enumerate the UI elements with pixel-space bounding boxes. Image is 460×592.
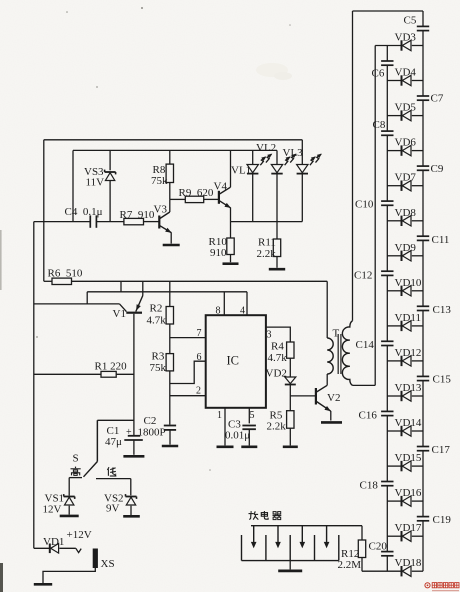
label pin 8 <box>216 306 221 317</box>
wire ladder right rail <box>422 11 424 571</box>
wire pin 2 <box>170 395 206 397</box>
capacitor C15 <box>417 376 429 380</box>
capacitor C2 <box>164 426 176 445</box>
label R8 <box>153 164 166 176</box>
diode VD7 <box>402 181 412 191</box>
svg-text:VD14: VD14 <box>395 417 422 429</box>
label C16 <box>359 410 378 422</box>
label V1 <box>113 308 126 320</box>
transistor V3 <box>159 199 171 243</box>
label VD18 <box>395 557 422 569</box>
wire secondary bottom <box>353 384 376 386</box>
label C19 <box>433 514 452 526</box>
svg-text:VD12: VD12 <box>395 347 422 359</box>
discharger arrow 2 <box>276 526 280 548</box>
wire VD5 row <box>387 115 423 117</box>
wire R4-VD2 <box>289 358 291 377</box>
svg-text:12V: 12V <box>43 504 62 516</box>
svg-text:C8: C8 <box>373 119 386 131</box>
label R2 <box>150 303 163 315</box>
ground pin 1 <box>217 445 234 448</box>
label VD9 <box>395 242 417 254</box>
label R1 220 <box>95 361 128 373</box>
label C1 plus <box>126 427 132 438</box>
ground discharger <box>278 570 302 573</box>
wire R1 row <box>34 373 134 375</box>
watermark <box>425 583 459 591</box>
svg-text:9V: 9V <box>106 503 120 515</box>
wire second left rail <box>43 140 45 281</box>
svg-text:C20: C20 <box>369 541 388 553</box>
label VD5 <box>395 102 417 114</box>
diode VD4 <box>402 75 412 85</box>
scan smudge <box>0 230 3 592</box>
diode VD2 <box>285 377 296 385</box>
label VD3 <box>395 32 417 44</box>
label VD14 <box>395 417 422 429</box>
resistor R4 <box>287 342 294 358</box>
svg-text:R3: R3 <box>152 351 165 363</box>
wire R10 <box>230 222 232 263</box>
svg-text:0.01μ: 0.01μ <box>225 430 250 442</box>
label VL2 <box>256 142 276 154</box>
label R3 75k <box>150 362 167 374</box>
wire +V rail from R6 to transformer primary <box>44 280 327 282</box>
capacitor C8 <box>381 131 393 135</box>
svg-text:VD8: VD8 <box>395 207 417 219</box>
wire top LED rail <box>44 139 303 141</box>
wire VD8 row <box>387 220 423 222</box>
wire R3 bottom chain <box>169 371 171 425</box>
wire contact high <box>69 478 82 496</box>
wire rail stub <box>120 281 122 292</box>
label R9 620 <box>179 187 214 199</box>
svg-text:R9 620: R9 620 <box>179 187 214 199</box>
LED VL3 <box>297 140 322 222</box>
capacitor C5 <box>417 26 429 30</box>
svg-text:VL2: VL2 <box>256 142 276 154</box>
label VD11 <box>395 312 421 324</box>
label VS1 <box>45 493 65 505</box>
wire VD14 row <box>387 430 423 432</box>
svg-text:47μ: 47μ <box>105 436 122 448</box>
wire primary top <box>326 281 328 338</box>
label R6 510 <box>48 268 83 280</box>
svg-text:2: 2 <box>196 386 201 397</box>
svg-text:C6: C6 <box>372 68 385 80</box>
wire VD2-R5 node <box>289 384 291 410</box>
wire VD1 row <box>34 547 76 549</box>
wire pin 3 <box>266 327 290 342</box>
label VD4 <box>395 67 417 79</box>
label C3 <box>228 419 241 431</box>
diode VD14 <box>402 426 412 436</box>
wire V1 base <box>34 304 127 312</box>
discharger comb electrodes <box>242 535 339 561</box>
svg-text:75k: 75k <box>151 175 168 187</box>
wire VD16 row <box>387 500 423 502</box>
label pin 1 <box>217 410 222 421</box>
label di (low contact) <box>107 467 116 476</box>
label 75k <box>151 175 168 187</box>
wire pin 7 <box>170 337 206 339</box>
transformer T secondary <box>342 321 352 386</box>
svg-text:VD3: VD3 <box>395 32 417 44</box>
label VL3 <box>283 147 304 159</box>
svg-text:V3: V3 <box>154 204 168 216</box>
wire pin 5 <box>248 408 250 424</box>
svg-text:C16: C16 <box>359 410 378 422</box>
svg-text:S: S <box>73 453 79 465</box>
svg-text:C7: C7 <box>431 93 444 105</box>
transformer core <box>338 334 341 374</box>
transistor V4 <box>219 150 231 221</box>
label VD6 <box>395 137 417 149</box>
capacitor C9 <box>417 166 429 170</box>
label C10 <box>355 199 374 211</box>
svg-text:VL1: VL1 <box>231 165 251 177</box>
wire switch drop <box>96 420 98 461</box>
label pin 3 <box>267 330 272 341</box>
resistor R9 <box>185 196 203 202</box>
wire V2 base <box>290 395 315 397</box>
svg-text:XS: XS <box>101 558 115 570</box>
IC box U1 <box>206 315 266 408</box>
svg-text:C19: C19 <box>433 514 452 526</box>
capacitor C7 <box>417 96 429 100</box>
svg-text:V1: V1 <box>113 308 126 320</box>
wire pin 4 stub <box>246 292 248 315</box>
svg-text:1800P: 1800P <box>138 427 166 439</box>
capacitor C1 <box>124 436 143 455</box>
wire R9 row <box>170 198 219 200</box>
wire ladder top <box>353 10 424 12</box>
svg-text:8: 8 <box>216 306 221 317</box>
svg-text:VD18: VD18 <box>395 557 422 569</box>
diode VD15 <box>402 461 412 471</box>
capacitor C20 <box>381 552 393 556</box>
transformer T primary <box>327 338 333 374</box>
label pin 2 <box>196 386 201 397</box>
svg-text:6: 6 <box>197 352 202 363</box>
label R11 <box>258 237 276 249</box>
svg-text:7: 7 <box>197 328 202 339</box>
label C2 <box>144 415 157 427</box>
svg-text:2.2k: 2.2k <box>257 248 277 260</box>
label VD15 <box>395 452 422 464</box>
label V4 <box>214 181 228 193</box>
wire R11 bottom <box>276 257 278 268</box>
ground V3 emitter <box>163 244 180 247</box>
ground VS1 <box>60 515 79 518</box>
resistor R5 <box>287 411 294 429</box>
capacitor C10 <box>381 201 393 205</box>
svg-text:C9: C9 <box>431 163 444 175</box>
svg-text:75k: 75k <box>150 362 167 374</box>
capacitor C11 <box>417 236 429 240</box>
svg-text:2.2M: 2.2M <box>338 559 362 571</box>
diode VD12 <box>402 356 412 366</box>
wire LED cathode row <box>231 221 303 223</box>
wire VD13 row <box>387 395 423 397</box>
resistor R6 <box>52 278 72 284</box>
label R4 <box>271 341 284 353</box>
svg-text:+12V: +12V <box>67 529 92 541</box>
svg-text:C13: C13 <box>433 304 452 316</box>
resistor R12 <box>358 540 365 558</box>
svg-text:2.2k: 2.2k <box>267 421 287 433</box>
LED VL1 <box>247 150 272 221</box>
svg-text:4.7k: 4.7k <box>147 315 167 327</box>
switch S blade <box>84 462 98 477</box>
capacitor C12 <box>381 271 393 275</box>
discharger arrow 1 <box>252 526 256 548</box>
wire VD7 row <box>387 185 423 187</box>
label pin 7 <box>197 328 202 339</box>
label C13 <box>433 304 452 316</box>
svg-text:3: 3 <box>267 330 272 341</box>
discharger arrow 4 <box>324 526 328 548</box>
wire R12 top <box>361 526 363 540</box>
resistor R10 <box>227 238 234 255</box>
diode VD6 <box>402 145 412 155</box>
svg-text:IC: IC <box>227 354 240 368</box>
wire 8-4 supply rail <box>87 292 247 304</box>
ground C3 <box>241 445 257 448</box>
wire R2 chain top <box>169 281 171 306</box>
ground C2 <box>162 445 178 448</box>
wire primary bottom <box>326 374 328 385</box>
wire VD3 row <box>375 45 423 47</box>
label VD2 <box>266 368 287 380</box>
label 910 <box>210 247 227 259</box>
capacitor C18 <box>381 482 393 486</box>
resistor R8 <box>166 164 173 182</box>
svg-text:VL3: VL3 <box>283 147 304 159</box>
wire ladder bottom row extension <box>361 558 363 572</box>
label C2 1800P <box>138 427 166 439</box>
svg-text:V4: V4 <box>214 181 228 193</box>
label C4 0.1u <box>65 206 103 218</box>
wire outer left rail <box>33 222 35 549</box>
label C17 <box>432 444 451 456</box>
resistor R1 <box>101 371 116 377</box>
label VD1 <box>43 536 64 548</box>
wire VS3 branch <box>109 150 111 221</box>
svg-text:VD15: VD15 <box>395 452 422 464</box>
svg-text:VD17: VD17 <box>395 522 422 534</box>
label 2.2k <box>257 248 277 260</box>
label VD16 <box>395 487 422 499</box>
zener VS1 <box>64 494 75 505</box>
svg-text:R4: R4 <box>271 341 284 353</box>
wire VD4 row <box>387 80 423 82</box>
label VS3 <box>84 166 104 178</box>
capacitor C14 <box>381 341 393 345</box>
svg-text:+: + <box>126 427 132 438</box>
svg-text:1: 1 <box>217 410 222 421</box>
wire box top rail <box>73 149 277 151</box>
diode VD16 <box>402 496 412 506</box>
svg-text:5: 5 <box>250 410 255 421</box>
resistor R7 <box>124 218 144 224</box>
label C9 <box>431 163 444 175</box>
label VS2 <box>104 493 124 505</box>
wire VD11 row <box>387 325 423 327</box>
label T <box>333 328 340 340</box>
diode VD5 <box>402 110 412 120</box>
svg-text:C2: C2 <box>144 415 157 427</box>
label pin 5 <box>250 410 255 421</box>
ground VS2 <box>123 515 140 518</box>
scan specks <box>36 7 292 471</box>
label R7 910 <box>120 209 155 221</box>
wire discharger center tap <box>289 561 291 570</box>
wire return rail <box>374 46 376 386</box>
capacitor C19 <box>417 517 429 521</box>
wire pin 6 <box>170 361 206 383</box>
diode VD1 <box>50 544 59 554</box>
wire box left side <box>72 150 74 221</box>
wire VD6 row <box>387 150 423 152</box>
svg-text:VD16: VD16 <box>395 487 422 499</box>
svg-text:VD13: VD13 <box>395 382 422 394</box>
label fang-dian-qi (discharger) <box>249 511 282 520</box>
label VD8 <box>395 207 417 219</box>
svg-text:V2: V2 <box>327 392 340 404</box>
wire C4 row <box>34 221 159 223</box>
label R5 <box>270 410 283 422</box>
label VD12 <box>395 347 422 359</box>
wire discharger top line <box>251 525 362 527</box>
label VD10 <box>395 277 422 289</box>
label C12 <box>354 270 372 282</box>
wire C1 branch <box>97 420 133 461</box>
label gao (high contact) <box>71 467 81 476</box>
zener VS2 <box>126 494 137 505</box>
label VS2 9V <box>106 503 120 515</box>
label C15 <box>433 374 452 386</box>
ground battery <box>34 583 52 586</box>
svg-text:R2: R2 <box>150 303 163 315</box>
wire VD15 row <box>387 465 423 467</box>
wire R8 branch <box>169 150 171 199</box>
label R12 2.2M <box>338 559 362 571</box>
diode VD17 <box>402 531 412 541</box>
label C11 <box>432 234 450 246</box>
wire R5 bottom <box>289 428 291 445</box>
svg-text:C5: C5 <box>404 15 417 27</box>
label R4 4.7k <box>268 352 288 364</box>
wire jack to ground <box>43 568 95 583</box>
diode VD9 <box>402 251 412 261</box>
label XS <box>101 558 115 570</box>
label R12 <box>341 548 359 560</box>
svg-text:VD4: VD4 <box>395 67 417 79</box>
wire VS2 bottom <box>130 506 132 515</box>
diode VD13 <box>402 391 412 401</box>
label 47u <box>105 436 122 448</box>
label R10 <box>209 236 228 248</box>
label C14 <box>356 339 375 351</box>
resistor R11 <box>273 239 280 257</box>
label R3 <box>152 351 165 363</box>
wire VD12 row <box>387 360 423 362</box>
transistor V1 <box>126 281 143 435</box>
svg-text:C14: C14 <box>356 339 375 351</box>
wire VD9 row <box>387 255 423 257</box>
svg-text:VD9: VD9 <box>395 242 417 254</box>
diode VD3 <box>402 40 412 50</box>
ground R5 <box>283 445 298 448</box>
svg-text:910: 910 <box>210 247 227 259</box>
LED VL2 <box>271 150 296 239</box>
diode VD8 <box>402 216 412 226</box>
svg-text:VD5: VD5 <box>395 102 417 114</box>
capacitor C6 <box>381 61 393 65</box>
label pin 4 <box>240 306 245 317</box>
diode VD10 <box>402 286 412 296</box>
wire secondary top rail <box>352 11 354 321</box>
label 11V <box>86 177 105 189</box>
svg-text:4.7k: 4.7k <box>268 352 288 364</box>
ground R11 <box>269 268 285 271</box>
label C18 <box>360 480 379 492</box>
label C7 <box>431 93 444 105</box>
label C8 <box>373 119 386 131</box>
capacitor C13 <box>417 306 429 310</box>
label R5 2.2k <box>267 421 287 433</box>
wire contact low <box>96 479 131 496</box>
wire VD17 row <box>387 535 423 537</box>
label VD17 <box>395 522 422 534</box>
wire pin 1 <box>224 408 226 446</box>
label C6 <box>372 68 385 80</box>
wire VS1 bottom <box>68 506 70 515</box>
label VS1 12V <box>43 504 62 516</box>
svg-text:VD7: VD7 <box>395 172 417 184</box>
plug tip contact <box>76 548 81 552</box>
svg-text:C15: C15 <box>433 374 452 386</box>
transistor V2 <box>316 385 331 420</box>
svg-text:11V: 11V <box>86 177 105 189</box>
svg-text:4: 4 <box>240 306 245 317</box>
ground V2 <box>321 421 342 424</box>
label +12V <box>67 529 92 541</box>
svg-text:R11: R11 <box>258 237 276 249</box>
ground C1 <box>123 455 144 458</box>
label S <box>73 453 79 465</box>
label VD7 <box>395 172 417 184</box>
label C3 0.01u <box>225 430 250 442</box>
svg-text:VD2: VD2 <box>266 368 287 380</box>
label C1 <box>107 425 120 437</box>
label VL1 <box>231 165 251 177</box>
zener VS3 <box>105 170 116 181</box>
svg-text:C17: C17 <box>432 444 451 456</box>
svg-text:C18: C18 <box>360 480 379 492</box>
label pin 6 <box>197 352 202 363</box>
discharger arrow 3 <box>300 526 304 548</box>
jack XS sleeve <box>93 549 98 569</box>
svg-text:R6 510: R6 510 <box>48 268 83 280</box>
svg-text:VD6: VD6 <box>395 137 417 149</box>
label V3 <box>154 204 168 216</box>
wire VD10 row <box>387 290 423 292</box>
wire R2-R3 <box>169 324 171 354</box>
svg-text:VD1: VD1 <box>43 536 64 548</box>
svg-text:C11: C11 <box>432 234 450 246</box>
